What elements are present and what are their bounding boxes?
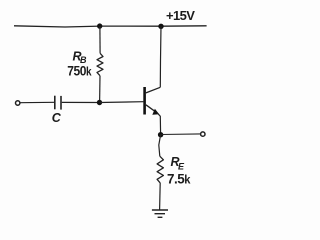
svg-text:E: E: [178, 162, 185, 172]
svg-text:C: C: [52, 111, 62, 125]
node: emitter junction: [158, 132, 163, 137]
svg-text:750k: 750k: [67, 63, 92, 79]
label: +15V supply: [166, 8, 195, 23]
resistor RB 750k: [97, 53, 103, 75]
wire: +15V supply rail: [14, 26, 207, 27]
wire: emitter node to RE top: [159, 135, 161, 157]
label 7.5k: [167, 171, 191, 186]
resistor RE 7.5k: [157, 156, 163, 183]
wire: rail to RB top: [99, 26, 101, 53]
node: rail junction to collector: [158, 24, 163, 29]
ground: [152, 210, 168, 217]
capacitor C: [55, 96, 61, 110]
wire: RB bottom to base node: [99, 76, 101, 103]
label 750k: [67, 63, 92, 79]
wire: RE bottom to ground: [159, 183, 162, 210]
svg-text:+15V: +15V: [166, 8, 195, 23]
label RE: [171, 155, 186, 171]
wire: emitter node to output terminal: [161, 133, 201, 136]
wire: base node to transistor base: [100, 101, 144, 104]
node: base junction: [97, 100, 102, 105]
terminal: output (open circle): [201, 132, 205, 136]
label C: [52, 111, 62, 125]
terminal: input (open circle): [16, 101, 20, 105]
svg-text:7.5k: 7.5k: [167, 171, 191, 186]
wire: emitter to output node: [158, 113, 161, 135]
wire: input terminal to capacitor: [20, 101, 54, 103]
wire: collector to rail: [159, 26, 162, 87]
label RB: [73, 50, 88, 65]
transistor Q1 (NPN): [145, 87, 161, 115]
node: rail junction to RB: [97, 23, 102, 28]
wire: capacitor to base node: [62, 101, 100, 103]
